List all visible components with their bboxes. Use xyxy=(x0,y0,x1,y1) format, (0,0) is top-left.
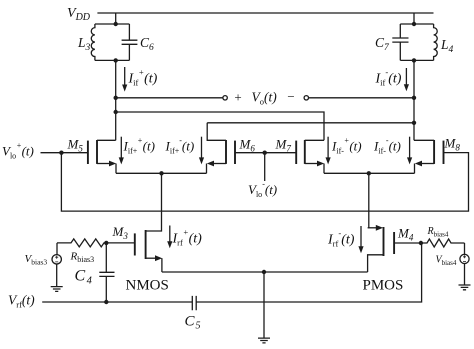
terminal output minus xyxy=(304,96,308,100)
right quad source rail xyxy=(324,172,415,174)
node C4 RF tap xyxy=(104,300,108,304)
wire left tail to M3 drain xyxy=(146,173,162,231)
wire RF line left xyxy=(42,301,192,303)
node left quad tail xyxy=(159,171,163,175)
wire common source line xyxy=(162,271,368,273)
capacitor C4 xyxy=(99,243,114,302)
node M4 gate junction xyxy=(419,241,423,245)
node Vlo+ junction xyxy=(59,151,63,155)
current arrow Iif+ top xyxy=(124,67,126,86)
svg-text:NMOS: NMOS xyxy=(126,278,169,294)
resistor Rbias4 xyxy=(421,239,465,247)
wire Vlo+ to M5 gate xyxy=(41,152,88,154)
inductor L3 xyxy=(91,24,95,60)
node right tank bottom junction xyxy=(412,58,416,62)
wire right IF branch vertical xyxy=(413,60,415,140)
current arrow Iif+ plus xyxy=(120,137,122,159)
capacitor C7 xyxy=(392,24,408,60)
wire cross-couple B M6 drain to right IF xyxy=(207,122,414,124)
wire left IF branch vertical xyxy=(115,60,117,140)
svg-text:PMOS: PMOS xyxy=(363,278,404,294)
capacitor C6 xyxy=(122,24,138,60)
node left cross tap xyxy=(114,110,118,114)
node right output tap xyxy=(412,96,416,100)
wire VDD rail xyxy=(97,12,433,14)
ground below Vbias3 xyxy=(51,287,63,292)
current arrow Iif- plus xyxy=(327,137,329,159)
svg-text:−: − xyxy=(287,89,294,104)
svg-text:+: + xyxy=(234,90,241,105)
left quad source rail xyxy=(116,172,207,174)
capacitor C5 xyxy=(192,296,196,310)
node right tank top junction xyxy=(412,22,416,26)
ground below Vbias4 xyxy=(459,285,471,290)
current arrow Iif- minus xyxy=(409,137,411,159)
wire Vlo- stub xyxy=(264,153,266,181)
node M3 gate junction xyxy=(104,241,108,245)
wire right tank bottom xyxy=(400,59,433,61)
inductor L4 xyxy=(434,24,438,60)
source Vbias4 xyxy=(464,243,466,254)
wire output left segment xyxy=(116,97,223,99)
node right cross tap xyxy=(412,121,416,125)
wire output right segment xyxy=(309,97,415,99)
current arrow Irf- xyxy=(360,226,362,247)
node left tank bottom junction xyxy=(114,58,118,62)
wire to central ground xyxy=(263,272,265,338)
resistor Rbias3 xyxy=(57,239,106,247)
wire RF line right xyxy=(197,243,422,302)
wire VDD to right tank xyxy=(413,13,415,24)
node left output tap xyxy=(114,96,118,100)
wire left tank bottom xyxy=(95,59,129,61)
wire VDD to left tank xyxy=(115,13,117,24)
current arrow Iif- top xyxy=(405,68,407,85)
node Vlo- junction xyxy=(263,151,267,155)
terminal output plus xyxy=(223,96,227,100)
wire right tank top xyxy=(400,23,433,25)
wire right tail to M4 drain xyxy=(368,173,370,228)
current arrow Iif+ minus xyxy=(201,137,203,159)
node right quad tail xyxy=(367,171,371,175)
ground central xyxy=(258,338,270,343)
node ground tap xyxy=(262,270,266,274)
source Vbias3 xyxy=(56,243,58,255)
wire M6 M7 gates xyxy=(235,152,296,154)
wire Vlo+ routing to M8 gate xyxy=(61,153,468,212)
svg-text:Vo(t): Vo(t) xyxy=(252,90,278,107)
wire cross-couple A left IF to M7 drain xyxy=(116,112,324,140)
svg-text:Vrf(t): Vrf(t) xyxy=(8,293,35,310)
wire left tank top xyxy=(95,23,129,25)
current arrow Irf+ xyxy=(169,226,171,243)
node left tank top junction xyxy=(114,22,118,26)
